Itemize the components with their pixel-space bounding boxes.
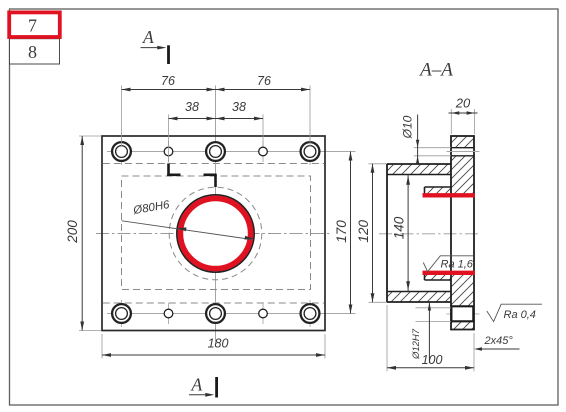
hatch circular boss bottom bbox=[425, 273, 452, 280]
svg-text:200: 200 bbox=[65, 220, 80, 244]
small hole S1 bbox=[164, 141, 173, 162]
table cell 8 bbox=[10, 39, 60, 64]
section marker A top bbox=[141, 27, 169, 64]
dimension 200 left side bbox=[65, 136, 101, 331]
section cut line step segments bbox=[167, 164, 217, 188]
svg-text:Ra 1,6: Ra 1,6 bbox=[441, 259, 474, 271]
O10 hole edges in plate bbox=[451, 148, 474, 156]
table cell 7 highlighted red bbox=[9, 12, 60, 37]
svg-text:180: 180 bbox=[208, 337, 229, 351]
svg-text:Ø10: Ø10 bbox=[401, 115, 415, 139]
hidden boss bottom edge (dashed) bbox=[103, 302, 324, 304]
hatch circular boss top bbox=[425, 187, 452, 195]
svg-text:A–A: A–A bbox=[418, 60, 453, 81]
hatch boss bottom wall bbox=[387, 292, 451, 303]
svg-text:170: 170 bbox=[334, 220, 349, 243]
hidden circular boss (dashed circle) bbox=[169, 187, 262, 280]
dimension 38 left bbox=[169, 100, 216, 120]
dimension 180 bottom bbox=[102, 334, 325, 359]
section marker A bottom bbox=[189, 375, 217, 398]
svg-text:20: 20 bbox=[455, 96, 471, 111]
dimension 76 left bbox=[122, 74, 216, 91]
roughness Ra 1,6 bbox=[423, 256, 473, 272]
dimension O10 leader bbox=[401, 115, 452, 164]
svg-text:Ø12H7: Ø12H7 bbox=[411, 328, 422, 360]
counterbored hole B3 bbox=[301, 138, 320, 165]
center bore circle O80 bbox=[177, 195, 254, 272]
section outline circular boss bbox=[425, 187, 452, 280]
chamfer note 2x45 bbox=[474, 335, 520, 351]
hidden boss top edge (dashed) bbox=[103, 163, 324, 165]
small hole S2 bbox=[259, 141, 268, 162]
svg-text:A: A bbox=[191, 375, 203, 395]
svg-text:38: 38 bbox=[185, 100, 199, 114]
dimension 120 bbox=[356, 164, 387, 302]
svg-text:Ra 0,4: Ra 0,4 bbox=[504, 309, 536, 321]
O10 row centerline through section bbox=[447, 151, 480, 153]
diameter dimension O80H6 bbox=[122, 199, 254, 240]
roughness Ra 0,4 bbox=[487, 304, 542, 321]
horizontal centerline of plate bbox=[96, 233, 332, 235]
svg-text:38: 38 bbox=[232, 100, 246, 114]
hatch plate between O10 and bore bbox=[451, 156, 474, 196]
svg-text:A: A bbox=[142, 27, 154, 47]
dimension 38 right bbox=[216, 100, 264, 120]
dimension 170 bbox=[334, 152, 352, 314]
svg-text:7: 7 bbox=[28, 16, 37, 36]
dimension 140 pocket bbox=[392, 175, 411, 292]
red bore surface top bbox=[423, 193, 475, 197]
svg-text:140: 140 bbox=[392, 216, 407, 239]
red highlight ring O80H6 bbox=[180, 198, 250, 268]
extension lines for top dims bbox=[122, 86, 311, 163]
counterbored hole B5 bbox=[206, 300, 225, 327]
red bore surface bottom bbox=[423, 271, 475, 275]
bottom hole row centerline bbox=[107, 313, 356, 315]
small hole S4 bbox=[259, 303, 268, 324]
hatch plate between bore and O12 bbox=[451, 273, 474, 307]
counterbored hole B4 bbox=[112, 300, 131, 327]
O12 hole centerline bbox=[447, 313, 480, 315]
O12 hole box in plate bbox=[451, 306, 473, 321]
svg-text:2x45°: 2x45° bbox=[484, 335, 514, 347]
small hole S3 bbox=[164, 303, 173, 324]
svg-text:76: 76 bbox=[257, 74, 271, 88]
svg-text:76: 76 bbox=[161, 74, 175, 88]
dimension 20 top bbox=[449, 96, 478, 135]
svg-text:100: 100 bbox=[422, 353, 443, 367]
top hole row centerline bbox=[107, 151, 356, 153]
svg-text:8: 8 bbox=[28, 42, 37, 62]
section horizontal centerline bbox=[379, 233, 481, 235]
section outline frame boss bbox=[387, 164, 451, 302]
counterbored hole B1 bbox=[112, 138, 131, 165]
hatch boss top wall bbox=[387, 164, 451, 175]
plate outline front view bbox=[102, 136, 325, 331]
vertical centerline of plate bbox=[215, 86, 217, 348]
hidden pocket rectangle (dashed) bbox=[122, 176, 311, 290]
dimension 76 right bbox=[216, 74, 311, 91]
counterbored hole B2 bbox=[206, 138, 225, 165]
svg-text:120: 120 bbox=[356, 220, 371, 243]
hatch plate above O10 hole bbox=[451, 136, 474, 148]
section outline plate slab bbox=[451, 136, 474, 330]
counterbored hole B6 bbox=[301, 300, 320, 327]
dimension 100 bottom bbox=[387, 305, 474, 371]
dimension O12H7 leader bbox=[411, 303, 451, 364]
hatch plate below O12 bbox=[451, 321, 474, 329]
